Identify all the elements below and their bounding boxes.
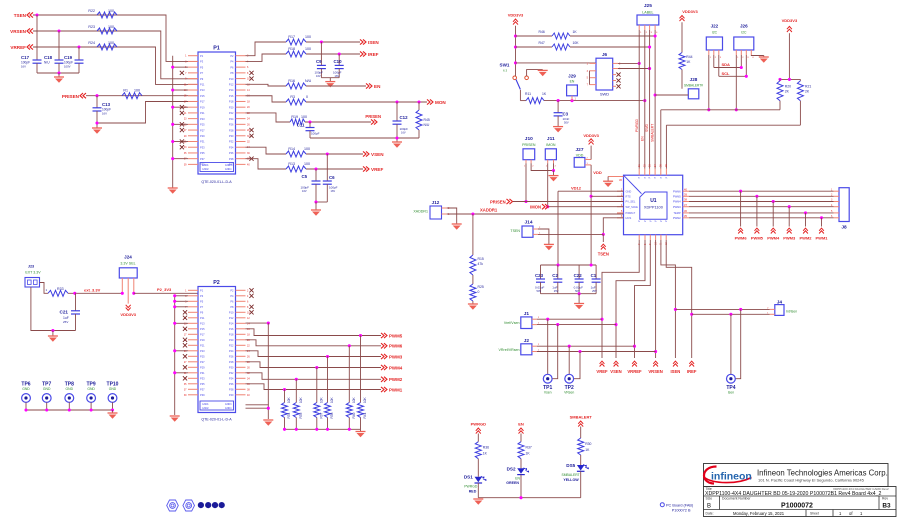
svg-text:1K: 1K	[686, 60, 691, 64]
svg-text:VRsen: VRsen	[564, 391, 574, 395]
svg-text:R18: R18	[288, 47, 295, 51]
svg-text:P17: P17	[200, 100, 205, 104]
net label MON (off-page)	[427, 99, 433, 104]
svg-text:EN: EN	[374, 84, 381, 89]
wire U1 PWM5 to J8	[689, 195, 834, 197]
wire P2 to PWM2	[246, 373, 382, 380]
power VDD3V3 below J24	[126, 305, 131, 311]
wire U1 pin10 to VRSEN	[655, 240, 657, 358]
svg-text:R36: R36	[483, 446, 489, 450]
svg-text:P7: P7	[200, 305, 204, 309]
svg-text:R30: R30	[585, 442, 591, 446]
svg-text:B3: B3	[882, 503, 891, 510]
wire PRISEN to P1	[86, 95, 198, 97]
svg-text:P30: P30	[229, 134, 234, 138]
wire cap commons	[37, 72, 79, 74]
resistor R41 10K pulldown	[359, 334, 362, 337]
wire J2 pin2 to VRREF	[537, 345, 635, 347]
svg-text:VDD3V3: VDD3V3	[120, 312, 136, 317]
svg-text:I2C: I2C	[712, 31, 718, 35]
wire J14 pin1 to TSEN junction	[538, 233, 603, 235]
svg-text:P27: P27	[200, 128, 205, 132]
svg-text:R35: R35	[299, 412, 303, 418]
svg-text:C19: C19	[64, 55, 73, 60]
svg-text:R20: R20	[785, 85, 791, 89]
svg-text:P14: P14	[229, 88, 234, 92]
svg-text:R44: R44	[686, 55, 692, 59]
capacitor C9 100pF	[320, 42, 322, 65]
svg-text:VDD3V3: VDD3V3	[583, 133, 599, 138]
svg-text:PWM4: PWM4	[767, 236, 780, 241]
svg-text:P37: P37	[200, 388, 205, 392]
svg-text:PC Board (FAB): PC Board (FAB)	[666, 503, 694, 507]
wire J2 pin1 to VRSEN	[537, 351, 656, 353]
svg-text:P31: P31	[200, 371, 205, 375]
wire pulldown commons	[285, 428, 361, 430]
svg-text:R17: R17	[288, 35, 295, 39]
wire J10 pin1 to PRISEN line	[525, 163, 527, 201]
svg-text:PWRGT: PWRGT	[626, 211, 636, 215]
svg-text:SWD: SWD	[600, 92, 609, 97]
svg-text:EN: EN	[570, 80, 575, 84]
ground under C12	[396, 138, 398, 142]
svg-text:P1: P1	[200, 289, 204, 293]
svg-text:WP_SAVE: WP_SAVE	[626, 205, 639, 209]
ground under pulldowns	[360, 429, 362, 431]
ground at LEDs	[473, 498, 483, 500]
svg-text:P25: P25	[200, 355, 205, 359]
svg-text:Monday, February 15, 2021: Monday, February 15, 2021	[733, 511, 785, 516]
svg-text:J29: J29	[568, 74, 576, 79]
svg-text:R37: R37	[526, 446, 532, 450]
ground on C21 common	[51, 329, 54, 332]
svg-text:25V: 25V	[554, 289, 559, 293]
svg-text:P35: P35	[200, 382, 205, 386]
svg-text:PWM5: PWM5	[751, 236, 764, 241]
svg-text:P19: P19	[200, 338, 205, 342]
net label VRSEN (off-page down)	[653, 361, 658, 366]
capacitor C3 10nF	[557, 101, 559, 113]
svg-text:P37: P37	[200, 157, 205, 161]
svg-text:100: 100	[108, 41, 114, 45]
wire P2 row8 to gnd bus right	[246, 322, 269, 324]
svg-text:P1000072: P1000072	[781, 503, 813, 510]
junction dots on sense lines	[35, 13, 38, 16]
net label PWM1 (off-page)	[381, 387, 387, 392]
wire VRSEN to P1	[33, 31, 198, 79]
resistor R36 1K	[475, 442, 481, 459]
wire J22 pin1 to SDA bus	[708, 55, 710, 110]
svg-text:Vsen: Vsen	[544, 391, 552, 395]
svg-text:PWM4: PWM4	[389, 365, 403, 370]
wire TP ground bus	[26, 409, 113, 411]
svg-text:PWM6: PWM6	[673, 189, 681, 193]
net label PWM2 (off-page)	[381, 377, 387, 382]
net label PWM5 (off-page)	[381, 333, 387, 338]
svg-text:P12: P12	[229, 83, 234, 87]
wire J27 pin2 to VDD3V3	[590, 146, 592, 160]
svg-text:VREF: VREF	[596, 369, 608, 374]
connector P1 QTE-020-01-L-D-A	[198, 52, 236, 174]
svg-text:3.3V SEL: 3.3V SEL	[120, 262, 135, 266]
wire J12 pin2 to ground	[447, 208, 457, 224]
net label VRREF (off-page down)	[632, 361, 637, 366]
svg-text:VDD3V3: VDD3V3	[682, 9, 698, 14]
wire J28 to SMBALERT vertical	[655, 94, 688, 96]
capacitor C22 0.01uF	[578, 265, 580, 279]
svg-text:PWM1: PWM1	[816, 236, 829, 241]
svg-text:Sheet: Sheet	[810, 512, 819, 516]
svg-text:RED: RED	[469, 490, 477, 494]
resistor R35 10K pulldown	[295, 378, 298, 381]
svg-text:IREF: IREF	[368, 52, 379, 57]
wire P1 to R18	[246, 54, 287, 61]
mounting hole H2	[183, 500, 195, 511]
svg-text:GND: GND	[43, 387, 51, 391]
svg-text:100: 100	[134, 89, 140, 93]
svg-text:P29: P29	[200, 366, 205, 370]
wire R3 to MON	[306, 101, 427, 103]
svg-text:GND2: GND2	[202, 168, 209, 171]
net label IREF (off-page down)	[689, 361, 694, 366]
svg-text:1K: 1K	[526, 452, 531, 456]
wire U1 pin9 to VRREF	[635, 240, 651, 358]
ground under R25	[472, 301, 474, 304]
svg-text:1K: 1K	[585, 448, 590, 452]
svg-text:PWM5: PWM5	[673, 195, 681, 199]
ground at TP bus	[112, 410, 114, 413]
wire VRREF to P1	[33, 47, 198, 84]
resistor R3 0	[286, 99, 306, 105]
Infineon logo	[704, 467, 717, 484]
resistor R37 10K pulldown	[315, 366, 318, 369]
svg-text:P6: P6	[230, 65, 234, 69]
net label VSEN (off-page)	[363, 151, 369, 156]
U1 bottom pin stubs	[638, 235, 640, 240]
svg-text:1K: 1K	[573, 30, 578, 34]
svg-text:SMBALERT: SMBALERT	[570, 415, 593, 420]
wire VREF vertical	[601, 319, 603, 358]
svg-text:C6: C6	[329, 175, 335, 180]
svg-text:N/U: N/U	[44, 61, 50, 65]
svg-text:N/U: N/U	[305, 79, 312, 83]
U1 top pin stubs	[638, 169, 640, 176]
wire P1 to R3	[246, 96, 287, 102]
svg-text:100: 100	[305, 35, 311, 39]
connector J12	[430, 206, 442, 219]
wire J10 pin2 to ground	[531, 163, 553, 170]
svg-text:J28: J28	[690, 77, 698, 82]
svg-text:P19: P19	[200, 105, 205, 109]
svg-text:1K: 1K	[542, 92, 547, 96]
wire R14 to VSEN	[306, 153, 363, 155]
svg-text:R11: R11	[525, 92, 531, 96]
wire VDD3V3 bus	[515, 26, 517, 74]
wire VD12 to U1 pin1	[558, 190, 624, 192]
svg-text:Infineon Technologies Americas: Infineon Technologies Americas Corp.	[757, 469, 888, 478]
wire P1 to R14	[246, 147, 287, 154]
svg-text:P3: P3	[200, 60, 204, 64]
wire SCL bus to U1	[666, 124, 800, 126]
svg-text:MON: MON	[435, 100, 446, 105]
svg-text:10K: 10K	[352, 396, 356, 403]
svg-text:GND: GND	[22, 387, 30, 391]
net label ISEN (off-page down)	[673, 361, 678, 366]
wire C11 bottom to C12 ground	[395, 136, 398, 139]
svg-text:R40: R40	[352, 412, 356, 418]
net label PWM1 (off-page down)	[821, 218, 823, 227]
svg-text:EXT 3.3V: EXT 3.3V	[25, 271, 41, 275]
svg-text:infineon: infineon	[711, 471, 752, 483]
svg-text:16V: 16V	[21, 64, 26, 68]
wire P2 to PWM4	[246, 362, 382, 368]
svg-text:J12: J12	[432, 200, 440, 205]
svg-text:PWRGD: PWRGD	[464, 485, 478, 489]
svg-text:R46: R46	[539, 30, 545, 34]
svg-text:P32: P32	[229, 371, 234, 375]
svg-text:P8: P8	[230, 71, 234, 75]
svg-text:VDD3V3: VDD3V3	[782, 18, 798, 23]
svg-text:EN: EN	[515, 476, 520, 480]
svg-text:VSEN: VSEN	[371, 152, 384, 157]
svg-text:R34: R34	[287, 412, 291, 418]
svg-text:J8: J8	[841, 225, 847, 231]
svg-text:R47: R47	[539, 41, 545, 45]
svg-text:GND3: GND3	[225, 403, 232, 406]
svg-text:SMBALERT: SMBALERT	[651, 124, 655, 142]
svg-text:25V: 25V	[592, 289, 597, 293]
svg-text:XADDR1: XADDR1	[480, 208, 498, 213]
svg-text:P25: P25	[200, 123, 205, 127]
net label VSEN (off-page down)	[614, 361, 619, 366]
svg-text:P40: P40	[229, 393, 234, 397]
svg-text:J22: J22	[711, 24, 719, 29]
net label PWM6 (off-page)	[381, 343, 387, 348]
svg-text:Int/Isen: Int/Isen	[786, 310, 797, 314]
wire P1 to R13	[246, 159, 287, 169]
svg-text:50V: 50V	[537, 289, 542, 293]
resistor R15 47k	[472, 214, 474, 255]
svg-text:P16: P16	[229, 94, 234, 98]
wire ISEN line to J4 pin2	[675, 308, 769, 310]
svg-text:GND: GND	[626, 189, 632, 193]
wire U1 pin7 to VREF	[602, 240, 639, 319]
U1 right pin stubs	[683, 190, 689, 192]
net label PWM3 (off-page down)	[788, 207, 790, 227]
wire C5 C6 commons	[316, 201, 327, 203]
ground under C3	[553, 126, 563, 128]
svg-text:QTE-020-01-L-D-A: QTE-020-01-L-D-A	[201, 180, 232, 184]
P2 GND pin box	[200, 401, 234, 410]
svg-text:PWRGD: PWRGD	[471, 422, 486, 427]
resistor R18 100	[286, 51, 306, 57]
connector P2 QTE-020-01-L-D-A	[198, 287, 236, 413]
svg-text:R19: R19	[291, 115, 298, 119]
wire cap rail bottom	[541, 293, 597, 295]
capacitor C2 1uF	[557, 265, 559, 279]
svg-text:PWM2: PWM2	[389, 377, 403, 382]
svg-text:0: 0	[306, 95, 308, 99]
svg-text:SWD: SWD	[645, 124, 649, 132]
J24 pins	[121, 278, 123, 293]
wire P1 to R19	[246, 113, 291, 122]
svg-text:100pF: 100pF	[301, 186, 310, 190]
svg-text:P20: P20	[229, 338, 234, 342]
svg-text:25V: 25V	[63, 320, 68, 324]
net label VREF (off-page)	[363, 166, 369, 171]
svg-text:100pF: 100pF	[329, 186, 338, 190]
svg-text:100pF: 100pF	[333, 71, 342, 75]
IC U1 XDPP1100	[624, 175, 683, 235]
wire J11 pin2 to ground	[553, 163, 555, 170]
svg-text:R14: R14	[288, 147, 295, 151]
resistor R19 100	[290, 119, 305, 125]
svg-text:100: 100	[304, 162, 310, 166]
svg-text:16V: 16V	[302, 189, 307, 193]
resistor R22 100	[97, 12, 117, 18]
svg-text:J23: J23	[28, 265, 34, 269]
svg-text:J1: J1	[524, 311, 530, 317]
svg-text:VRREF: VRREF	[10, 45, 26, 50]
PC Board note	[660, 503, 664, 507]
svg-text:ext_3.3V: ext_3.3V	[84, 287, 101, 292]
wire SDA bus to U1	[661, 109, 780, 111]
svg-text:P24: P24	[229, 117, 234, 121]
wire J27 pin1 VDD down to U1 and caps	[590, 165, 592, 265]
svg-text:P5: P5	[200, 65, 204, 69]
svg-text:SMBALERT: SMBALERT	[561, 473, 579, 477]
mounting hole H1	[167, 500, 179, 511]
svg-text:P4: P4	[230, 60, 234, 64]
svg-text:2K: 2K	[805, 90, 810, 94]
svg-text:C2: C2	[552, 273, 558, 278]
wire P1 to R17	[246, 42, 287, 56]
J6 right pins	[613, 62, 618, 64]
svg-text:Isen: Isen	[728, 391, 735, 395]
wire J14 pin2 to ground	[538, 229, 549, 244]
svg-text:10K: 10K	[319, 396, 323, 403]
svg-text:B: B	[707, 504, 711, 510]
svg-text:C5: C5	[302, 174, 308, 179]
svg-text:P34: P34	[229, 145, 234, 149]
svg-text:P16: P16	[229, 327, 234, 331]
ground at cap rail	[578, 294, 580, 304]
svg-text:GND3: GND3	[225, 164, 232, 167]
svg-text:EN: EN	[518, 422, 524, 427]
svg-text:Document Number: Document Number	[722, 497, 751, 501]
svg-text:P33: P33	[200, 145, 205, 149]
wire IMON to U1 pin4	[549, 206, 624, 208]
wire U1 pin6 TSEN	[603, 218, 623, 235]
svg-text:C21: C21	[60, 310, 69, 315]
capacitor C5 100pF	[315, 169, 317, 181]
svg-text:C18: C18	[44, 55, 53, 60]
svg-text:PWM6: PWM6	[735, 236, 748, 241]
svg-text:0: 0	[478, 290, 480, 294]
net label PWM4 (off-page down)	[772, 202, 774, 227]
svg-text:GND1: GND1	[202, 164, 209, 167]
svg-text:P18: P18	[229, 333, 234, 337]
svg-text:IMON: IMON	[546, 143, 556, 147]
svg-text:C17: C17	[21, 55, 30, 60]
svg-text:VDD3V3: VDD3V3	[508, 13, 524, 18]
ground under C17-C19	[58, 73, 60, 77]
svg-text:SCL: SCL	[722, 71, 731, 76]
wire J6 pin4	[618, 68, 650, 70]
svg-text:PRISEN: PRISEN	[490, 199, 506, 204]
svg-text:VRref/VRsen: VRref/VRsen	[499, 348, 520, 352]
svg-text:P8: P8	[230, 305, 234, 309]
svg-text:RTS: RTS	[626, 195, 631, 199]
ground at P2 bus	[170, 415, 180, 417]
resistor R16 N/U	[286, 83, 306, 89]
svg-text:PWM3: PWM3	[389, 354, 403, 359]
svg-text:P23: P23	[200, 117, 205, 121]
P2 left ground bus	[174, 296, 176, 415]
svg-text:16V: 16V	[401, 131, 406, 135]
wire R13 to VREF	[306, 168, 363, 170]
svg-text:ISEN: ISEN	[671, 369, 681, 374]
resistor R34 10K pulldown	[283, 388, 286, 391]
fiducial marks	[198, 502, 204, 508]
net label PWM6 (off-page down)	[740, 191, 742, 226]
resistor R24 100	[97, 44, 117, 50]
wire TSEN to P1	[33, 15, 198, 61]
wire J1 pin1 to VSEN	[537, 324, 616, 326]
ground under C13	[96, 123, 98, 128]
svg-text:PWM2: PWM2	[673, 216, 681, 220]
svg-text:J11: J11	[547, 136, 555, 142]
svg-text:P36: P36	[229, 382, 234, 386]
resistor R37 1K	[518, 442, 524, 459]
svg-text:C9: C9	[316, 59, 322, 64]
svg-text:R45: R45	[424, 118, 430, 122]
svg-text:GND: GND	[109, 387, 117, 391]
resistor R46 1K	[516, 35, 553, 37]
wire R19 to PRISEN	[305, 121, 371, 123]
svg-text:100: 100	[301, 115, 307, 119]
wire P2 to PWM3	[246, 351, 382, 357]
svg-text:P6: P6	[230, 300, 234, 304]
svg-text:0.01uF: 0.01uF	[574, 286, 584, 290]
net label PWM4 (off-page)	[381, 365, 387, 370]
svg-text:P3: P3	[200, 294, 204, 298]
ground under C5 C6	[315, 202, 317, 210]
wire VDD cap rail	[541, 264, 597, 266]
capacitor C12 100pF	[396, 102, 398, 121]
resistor R21 2K	[799, 79, 801, 80]
svg-text:U1: U1	[650, 198, 657, 204]
svg-text:C22: C22	[574, 273, 583, 278]
wire J1 pin2 to VREF	[537, 318, 602, 320]
capacitor C17 100pF	[36, 15, 38, 60]
svg-text:6.3: 6.3	[503, 69, 508, 73]
svg-text:PWM4: PWM4	[673, 200, 681, 204]
svg-text:GND1: GND1	[202, 403, 209, 406]
net label TSEN below junction	[602, 234, 604, 242]
wire SW1 to J6	[516, 62, 597, 64]
wire U1 pin12 to IREF	[666, 240, 692, 358]
svg-text:LABEL: LABEL	[642, 10, 653, 14]
svg-text:16V: 16V	[316, 74, 321, 78]
wire TP4 alternate	[736, 309, 741, 378]
svg-text:GND4: GND4	[225, 168, 232, 171]
svg-text:J25: J25	[644, 3, 652, 9]
wire U1 PWM4 to J8	[689, 201, 834, 203]
LED DS5	[577, 465, 585, 471]
svg-text:XADDR1: XADDR1	[413, 210, 428, 214]
test point TP4 Isen	[727, 374, 736, 383]
